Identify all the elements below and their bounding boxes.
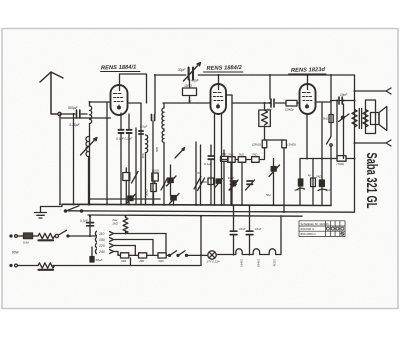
svg-text:20V: 20V [266, 108, 273, 112]
tube V2 cathode dot [217, 105, 220, 108]
svg-text:7kΩ: 7kΩ [252, 153, 258, 157]
wire [321, 159, 323, 206]
pot dot [341, 116, 344, 119]
wire plate V3 [316, 101, 332, 103]
svg-text:5µ: 5µ [188, 99, 192, 103]
wire [330, 75, 332, 101]
wire [120, 113, 122, 129]
svg-text:0,5µF: 0,5µF [140, 125, 147, 129]
mains terminal b [10, 264, 17, 267]
trimmer right [216, 179, 220, 183]
choke top wire [264, 103, 266, 110]
table text [301, 222, 330, 236]
svg-text:0,6A: 0,6A [23, 241, 29, 245]
wire [69, 235, 96, 237]
coil IF3 [162, 131, 164, 142]
cap tone arrow a [297, 188, 305, 189]
svg-text:150: 150 [99, 238, 105, 242]
wire [60, 117, 111, 119]
svg-text:GPO: GPO [185, 84, 193, 88]
voltage selector 220 [95, 243, 113, 248]
wire [89, 124, 91, 205]
svg-text:7kΩ: 7kΩ [221, 152, 227, 156]
resistor box 5k [329, 115, 333, 123]
pickup arrow top [355, 88, 392, 94]
trimmer arrow [81, 138, 98, 156]
resistor box 1M [282, 140, 287, 148]
dropper switch [169, 251, 188, 257]
wire [88, 157, 90, 205]
resistor box GPO [183, 88, 197, 96]
wire [265, 139, 285, 141]
svg-text:0,1µF 0,1µF: 0,1µF 0,1µF [116, 137, 132, 141]
svg-text:110: 110 [99, 232, 105, 236]
svg-text:0,1µF: 0,1µF [204, 162, 212, 166]
wire [33, 235, 39, 237]
wire [200, 216, 202, 265]
svg-text:3-18pF: 3-18pF [69, 123, 81, 127]
trimmer arrow det [269, 165, 280, 177]
output transformer secondary [363, 110, 368, 128]
wire [231, 95, 233, 205]
svg-text:10nF: 10nF [255, 227, 262, 231]
speaker driver [371, 113, 380, 125]
resistor box 25k [262, 140, 267, 148]
svg-text:RENS 1884/2: RENS 1884/2 [206, 65, 242, 72]
wire [264, 148, 266, 159]
wire [189, 80, 191, 104]
cap 50u arrow [230, 181, 238, 190]
svg-text:4000: 4000 [228, 176, 235, 180]
wire [276, 102, 287, 104]
svg-text:04Ω: 04Ω [121, 259, 126, 263]
svg-text:50µ: 50µ [266, 193, 271, 197]
svg-text:24Ω: 24Ω [315, 175, 322, 179]
svg-text:29Ω: 29Ω [158, 259, 164, 263]
switch slash c [161, 178, 168, 190]
wire [59, 114, 61, 204]
wire [18, 235, 24, 237]
output transformer core [359, 109, 361, 129]
resistor box 70ohm [337, 156, 346, 162]
chassis bus 3 [88, 215, 302, 216]
svg-text:(25kΩ): (25kΩ) [252, 143, 261, 147]
wire det line [163, 102, 211, 104]
chassis bus 2 [68, 211, 355, 212]
wire 10n line [331, 100, 355, 102]
svg-text:7kΩ: 7kΩ [228, 153, 234, 157]
wire [120, 134, 122, 205]
barretter b [38, 263, 55, 270]
trimmer blk b [171, 196, 176, 201]
wire [269, 75, 271, 99]
capacitor 0.1uF b [127, 130, 132, 133]
wire [283, 148, 285, 212]
barretter a [38, 233, 55, 240]
selector row wires [114, 234, 167, 252]
wire [41, 204, 63, 206]
capacitor 500pF [77, 110, 80, 118]
wire [129, 254, 168, 256]
svg-text:30pF: 30pF [178, 68, 187, 72]
svg-text:(2MΩ): (2MΩ) [285, 108, 293, 112]
svg-text:1884/1: 1884/1 [240, 259, 244, 267]
resistor box 50k [151, 184, 157, 192]
label RENS 1884/1 [101, 65, 141, 72]
wire [106, 102, 108, 205]
wire [232, 102, 271, 104]
svg-text:(1kΩ): (1kΩ) [152, 169, 159, 173]
ground symbol [35, 207, 47, 219]
trimmer arrow left band [126, 194, 136, 204]
svg-text:49Ω: 49Ω [139, 259, 144, 263]
voltage selector 110 [95, 231, 113, 236]
capacitor 0.1 near bus [208, 156, 213, 159]
resistor box left band [123, 173, 130, 181]
trimmer 30pF [189, 68, 193, 80]
wire [264, 127, 266, 141]
resistor row 7k c [252, 157, 260, 163]
resistor box 1k [152, 173, 159, 181]
grid cap wire V3 [307, 75, 309, 90]
wire plate V1 [128, 103, 142, 205]
wire [53, 265, 201, 267]
choke body [259, 110, 271, 127]
grid cap wire V2 [218, 75, 220, 90]
svg-text:4µF: 4µF [294, 188, 299, 192]
wire [154, 181, 155, 205]
cap 50u blk [232, 182, 236, 186]
tube V3 internals [303, 93, 313, 107]
svg-text:2kΩ: 2kΩ [112, 222, 119, 226]
antenna jack [58, 112, 61, 115]
svg-text:0,1µF: 0,1µF [80, 219, 88, 223]
capacitor blk mid [152, 115, 155, 121]
wire [163, 103, 165, 205]
tube V1 internals [114, 94, 124, 108]
wire [297, 102, 300, 104]
spec table [299, 221, 345, 237]
wire [89, 216, 91, 236]
pilot lamp [208, 251, 216, 259]
pickup arrow bottom [355, 140, 392, 146]
cap tone blk a [298, 179, 302, 186]
resistor box 2M [286, 100, 297, 106]
svg-text:2µF: 2µF [325, 188, 331, 192]
wire [91, 247, 93, 257]
tube V3 envelope [300, 84, 316, 114]
svg-text:5kΩ: 5kΩ [323, 117, 329, 121]
svg-text:Saba 321 GL: Saba 321 GL [363, 153, 380, 209]
wire plate V2 [226, 94, 232, 96]
resistor row 7k a [228, 157, 236, 163]
wire [306, 114, 308, 159]
svg-text:RENS 1884/1: RENS 1884/1 [101, 65, 136, 72]
small value labels [12, 68, 348, 267]
wire [145, 153, 147, 205]
svg-text:500: 500 [141, 153, 145, 158]
wire [73, 115, 75, 205]
svg-text:RENS 1823d: RENS 1823d [291, 67, 326, 74]
wire [62, 113, 76, 115]
wire [81, 113, 87, 115]
antenna [40, 72, 63, 114]
capacitor 0.1uF a [119, 130, 124, 133]
heater cap b [246, 231, 253, 234]
svg-text:1823d: 1823d [273, 259, 277, 267]
svg-text:(70Ω): (70Ω) [337, 162, 345, 166]
capacitor 20V [271, 99, 274, 107]
wire [336, 101, 338, 159]
capacitor 10nF [339, 97, 342, 104]
svg-text:240: 240 [98, 250, 105, 254]
wire [128, 114, 130, 129]
voltage selector 150 [95, 237, 113, 242]
svg-text:220: 220 [98, 244, 105, 248]
wire [299, 159, 301, 206]
svg-text:›: › [60, 208, 61, 212]
switch slash b [198, 178, 205, 191]
resistor box 100 [208, 178, 214, 185]
capacitor C blk [139, 131, 143, 134]
switch output [327, 137, 333, 147]
label RENS 1884/2 [204, 65, 244, 72]
wire [231, 162, 242, 205]
wire [330, 101, 332, 206]
svg-text:(1MΩ): (1MΩ) [288, 143, 296, 147]
wire [321, 102, 323, 159]
trimmer arrow b [170, 194, 180, 204]
wire tone line [300, 158, 355, 160]
coil ant secondary [86, 137, 89, 157]
wire [130, 258, 132, 266]
svg-text:80W: 80W [12, 251, 20, 255]
cap tone arrow b [318, 189, 327, 190]
coil IF2 [162, 108, 164, 129]
speaker frame [366, 100, 376, 134]
capacitor 0.1uF mains [87, 223, 94, 226]
dropper box c [158, 253, 166, 258]
wire [188, 254, 209, 256]
resistor box tone [311, 178, 316, 187]
svg-text:800-2000 m: 800-2000 m [301, 232, 317, 236]
wire [90, 102, 111, 106]
pot arrow speaker [339, 114, 350, 122]
heater cap a [230, 231, 237, 234]
wire [343, 104, 345, 159]
wire [221, 114, 223, 205]
svg-text:100Ω: 100Ω [200, 180, 208, 184]
trimmer pair b arrow [246, 180, 255, 190]
cap 50uF blk [90, 257, 94, 263]
svg-text:17V 0,23A: 17V 0,23A [207, 260, 220, 264]
wire [18, 265, 39, 267]
svg-text:1884/2: 1884/2 [257, 259, 261, 267]
cap tone blk b [319, 180, 324, 187]
output transformer primary [352, 110, 357, 128]
trimmer blk a [168, 178, 173, 183]
coil ant primary [90, 106, 92, 124]
tuning gang arrow [175, 148, 185, 159]
wire [196, 142, 201, 205]
top HT rail [155, 74, 355, 76]
wire out rail [354, 75, 356, 211]
svg-text:500pF: 500pF [68, 106, 79, 110]
svg-text:500: 500 [155, 147, 159, 152]
wire [214, 113, 216, 205]
fuse 0.6A [21, 233, 35, 239]
resistor box 7k d [221, 156, 229, 161]
svg-text:200-600 m: 200-600 m [301, 227, 315, 231]
resistor Fwt 2k [123, 216, 128, 234]
trimmer cap det [271, 167, 276, 172]
svg-text:10nF: 10nF [340, 93, 348, 97]
trimmer pair b [247, 181, 253, 184]
wire [128, 134, 130, 205]
trimmer pair a [231, 181, 237, 184]
wire heater line [216, 216, 281, 255]
wire [171, 165, 174, 205]
tube V1 cathode dot [118, 106, 121, 109]
power switch lever [64, 206, 82, 212]
mains terminal a [10, 235, 17, 238]
dropper box a [121, 253, 129, 258]
voltage selector 240 [95, 249, 113, 254]
label RENS 1823d [289, 67, 327, 74]
selector row drops [118, 234, 166, 256]
wire avc line [90, 198, 160, 200]
tube V3 cathode dot [306, 105, 309, 108]
tube V2 envelope [211, 84, 227, 114]
svg-text:10nF: 10nF [239, 227, 246, 231]
tube V2 internals [214, 93, 224, 107]
switch slash a [194, 177, 201, 190]
trimmer arrow a [167, 176, 177, 186]
trimmer 30pF arrow [184, 63, 201, 82]
dropper box b [139, 253, 147, 258]
speaker cone [379, 107, 387, 131]
wire [135, 128, 137, 205]
wire [153, 75, 155, 205]
trimmer pair a arrow [229, 180, 238, 190]
svg-text:7kΩ: 7kΩ [239, 153, 245, 157]
coil IF1 [146, 135, 148, 153]
svg-text:1µ: 1µ [308, 173, 312, 177]
chassis bus 1 [62, 204, 331, 205]
svg-text:50kΩ: 50kΩ [145, 188, 149, 196]
svg-text:Schaltplan Nr. 112131: Schaltplan Nr. 112131 [301, 222, 330, 226]
wire [273, 159, 275, 205]
resistor row 7k b [238, 157, 246, 163]
tube V1 envelope [111, 85, 128, 115]
wire [312, 159, 314, 206]
trimmer right arrow [215, 179, 223, 189]
grid cap wire V1 [120, 74, 147, 103]
trimmer blk left band [128, 196, 133, 201]
svg-text:40pF: 40pF [191, 79, 200, 83]
wire [234, 206, 250, 256]
wire [125, 168, 127, 205]
switch slash left band [132, 172, 139, 184]
svg-text:50µF: 50µF [96, 258, 103, 262]
wire [222, 159, 265, 161]
wire [211, 145, 224, 205]
mains switch [55, 230, 69, 237]
